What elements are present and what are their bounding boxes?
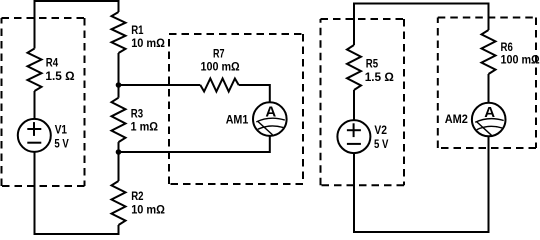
label V2 [374,123,388,151]
resistor R1 [112,12,166,53]
svg-text:V2: V2 [374,123,387,137]
resistor R6 [482,30,540,74]
wire: V1 to bottom rail [35,152,119,234]
wire: R1 to node A [118,53,120,85]
svg-text:1.5 Ω: 1.5 Ω [45,69,75,83]
wire: R4 to V1 [34,91,36,119]
label AM2 [445,112,468,126]
dashed box: R6/AM2 meter block [438,18,536,149]
wire: top rail right circuit [354,4,489,46]
resistor R4 [28,49,75,92]
svg-text:10 mΩ: 10 mΩ [131,36,165,50]
wire: R3 to node B [118,142,120,152]
dashed box: V2/R5 source block [321,19,405,185]
dashed box: V1/R4 source block [2,18,85,186]
ammeter AM2 [472,103,506,137]
wire: R5 to V2 [353,90,355,120]
svg-text:100 mΩ: 100 mΩ [501,52,540,66]
resistor R5 [347,45,394,90]
svg-text:V1: V1 [55,123,68,137]
wire: AM1 to node B [119,136,270,152]
svg-text:10 mΩ: 10 mΩ [131,203,165,217]
ammeter AM1 [253,102,287,136]
svg-text:100 mΩ: 100 mΩ [201,60,241,74]
resistor R7 [200,46,240,91]
node B junction [116,149,122,155]
resistor R3 [112,98,159,142]
voltage source V1 [18,119,51,152]
svg-text:1 mΩ: 1 mΩ [131,120,159,134]
svg-text:AM2: AM2 [445,112,468,126]
wire: R7 to AM1 [239,85,270,102]
label AM1 [226,112,249,126]
wire: R6 to AM2 [488,74,490,103]
resistor R2 [112,181,166,225]
wire: node A to R3 [118,85,120,98]
wire: node B to R2 [118,152,120,181]
svg-text:R2: R2 [131,189,144,203]
dashed box: R7/AM1 meter block [169,34,303,184]
node A junction [116,82,122,88]
svg-text:R4: R4 [46,56,59,70]
wire: node A to R7 [119,84,201,86]
voltage source V2 [337,120,370,153]
wire: V2 to bottom rail and AM2 [354,136,489,232]
svg-text:AM1: AM1 [226,112,249,126]
svg-text:R3: R3 [131,106,144,120]
svg-text:R5: R5 [366,57,379,71]
label V1 [54,123,68,151]
wire: top rail left circuit [35,1,119,49]
svg-text:1.5 Ω: 1.5 Ω [365,70,395,84]
svg-text:5 V: 5 V [374,137,388,151]
svg-text:R7: R7 [213,46,225,60]
svg-text:5 V: 5 V [54,137,68,151]
